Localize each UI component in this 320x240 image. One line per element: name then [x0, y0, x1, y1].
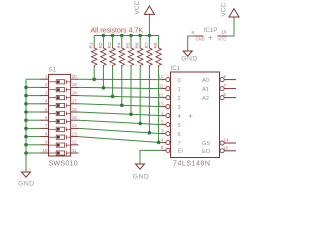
switch element 8 of S1 — [49, 135, 71, 139]
resistor R6 4.7K — [138, 46, 143, 68]
junction on VCC bus at R5 — [129, 34, 133, 38]
wire S1 pin 1 to bus — [26, 78, 41, 80]
junction on VCC bus at R4 — [120, 34, 124, 38]
wire VCC bus to R1 — [93, 36, 95, 47]
svg-text:All resistors 4.7K: All resistors 4.7K — [91, 28, 144, 35]
svg-text:6: 6 — [178, 132, 181, 138]
svg-text:GS: GS — [202, 141, 210, 147]
junction R8 to net 7 — [157, 141, 161, 145]
S1 pin 9 (left) — [41, 140, 49, 145]
wire VCC bus above resistors — [94, 35, 158, 37]
junction at bus row 10 — [24, 151, 28, 155]
svg-text:14: 14 — [224, 138, 230, 143]
wire net from S1 pin 13 to IC1 input 7 — [79, 137, 162, 143]
svg-text:5: 5 — [178, 123, 181, 129]
svg-text:R4: R4 — [116, 42, 121, 48]
svg-text:2: 2 — [178, 96, 181, 102]
wire net from S1 pin 18 to IC1 input 2 — [79, 96, 162, 98]
svg-text:12: 12 — [72, 140, 78, 145]
wire S1 pin 4 to bus — [26, 103, 41, 105]
svg-text:IC1: IC1 — [171, 65, 181, 72]
svg-text:1: 1 — [178, 87, 181, 93]
S1 pin 6 (left) — [41, 115, 49, 120]
S1 pin 7 (left) — [41, 123, 49, 128]
wire net from S1 pin 15 to IC1 input 5 — [79, 120, 162, 124]
wire R2 to net junction — [102, 68, 104, 88]
wire R7 to net junction — [148, 68, 150, 133]
wire S1 pin 10 to bus — [26, 152, 41, 154]
svg-text:12: 12 — [158, 92, 164, 97]
switch element 1 of S1 — [49, 80, 71, 84]
IC1 input pin 11 (name 1) — [159, 83, 181, 92]
wire net from S1 pin 16 to IC1 input 4 — [79, 112, 162, 116]
S1 pin 13 (right) — [71, 131, 79, 136]
junction on VCC bus at R6 — [138, 34, 142, 38]
svg-text:GND: GND — [133, 173, 150, 180]
IC1 input pin 1 (name 4) — [161, 110, 181, 119]
wire IC1P pin16 to VCC — [227, 17, 235, 36]
IC1P pin 8 (GND) — [191, 30, 204, 42]
svg-text:10: 10 — [158, 74, 164, 79]
IC1P pin 16 (VCC) — [218, 30, 227, 42]
S1 pin 20 (right) — [71, 74, 79, 79]
IC1 output pin 6 (A2) — [202, 92, 236, 102]
wire S1 pin 3 to bus — [26, 95, 41, 97]
IC1 output pin 7 (A1) — [202, 83, 236, 93]
S1 pin 16 (right) — [71, 107, 79, 112]
resistor R1 4.7K — [91, 46, 96, 68]
supply symbol VCC (right, above IC1P) — [221, 3, 240, 17]
wire VCC bus to R2 — [102, 36, 104, 47]
junction on VCC bus at R7 — [148, 34, 152, 38]
wire net from S1 pin 14 to IC1 input 6 — [79, 128, 162, 133]
IC1 input pin 2 (name 5) — [161, 119, 181, 128]
IC1 input pin 13 (name 3) — [158, 101, 180, 110]
IC1P origin cross — [209, 36, 213, 40]
junction R2 to net 1 — [102, 86, 106, 90]
encoder IC1 body — [171, 72, 220, 158]
switch element 6 of S1 — [49, 119, 71, 123]
wire net from S1 pin 20 to IC1 input 0 — [79, 78, 162, 80]
wire S1 pin 9 to bus — [26, 144, 41, 146]
IC1 input pin 3 (name 6) — [161, 128, 181, 137]
switch element 10 of S1 — [49, 151, 71, 155]
svg-text:13: 13 — [72, 131, 78, 136]
IC1 origin cross — [189, 114, 193, 118]
svg-text:19: 19 — [72, 82, 78, 87]
wire S1 pin 8 to bus — [26, 136, 41, 138]
svg-text:4: 4 — [178, 114, 181, 120]
wire S1 pin 2 to bus — [26, 86, 41, 88]
S1 pin 17 (right) — [71, 99, 79, 104]
svg-text:GND: GND — [196, 37, 205, 42]
svg-text:SWS010: SWS010 — [49, 161, 78, 168]
svg-text:15: 15 — [72, 115, 78, 120]
svg-text:R2: R2 — [98, 42, 103, 48]
junction on VCC bus at R2 — [102, 34, 106, 38]
IC1 pin 5 (EI) — [161, 145, 183, 154]
ground symbol (below IC1P) — [181, 51, 198, 63]
junction at bus row 4 — [24, 102, 28, 106]
junction R6 to net 5 — [138, 122, 142, 126]
svg-text:11: 11 — [159, 83, 164, 88]
junction at bus row 7 — [24, 127, 28, 131]
switch element 9 of S1 — [49, 143, 71, 147]
junction at bus row 3 — [24, 94, 28, 98]
IC1 input pin 12 (name 2) — [158, 92, 180, 101]
wire VCC bus to R6 — [139, 36, 141, 47]
S1 pin 11 (right) — [71, 148, 79, 153]
svg-text:16: 16 — [221, 30, 227, 35]
S1 pin 18 (right) — [71, 90, 79, 95]
svg-text:GND: GND — [18, 180, 35, 187]
S1 pin 1 (left) — [41, 74, 49, 79]
IC1 output pin 15 (EO) — [202, 145, 236, 155]
svg-text:0: 0 — [178, 78, 181, 84]
S1 pin 10 (left) — [41, 148, 49, 153]
switch element 4 of S1 — [49, 103, 71, 107]
svg-text:EI: EI — [178, 149, 184, 155]
svg-text:R8: R8 — [153, 42, 158, 48]
wire EI to ground — [140, 150, 162, 163]
ground symbol (bottom left) — [18, 172, 35, 187]
S1 pin 2 (left) — [41, 82, 49, 87]
svg-text:15: 15 — [224, 145, 230, 150]
svg-text:14: 14 — [72, 123, 78, 128]
wire VCC bus to R3 — [112, 36, 114, 47]
svg-text:A1: A1 — [202, 87, 209, 93]
svg-text:VCC: VCC — [221, 3, 228, 17]
switch element 3 of S1 — [49, 96, 71, 100]
svg-text:17: 17 — [72, 99, 78, 104]
junction R5 to net 4 — [129, 113, 133, 117]
wire VCC bus to R8 — [158, 36, 160, 47]
svg-text:GND: GND — [181, 56, 198, 63]
resistor R5 4.7K — [128, 46, 133, 68]
svg-text:10: 10 — [42, 148, 48, 153]
wire R6 to net junction — [139, 68, 141, 123]
svg-text:16: 16 — [72, 107, 78, 112]
switch element 2 of S1 — [49, 88, 71, 92]
svg-text:74LS148N: 74LS148N — [173, 160, 210, 167]
junction at bus row 5 — [24, 110, 28, 114]
svg-text:R3: R3 — [107, 42, 112, 48]
S1 pin 3 (left) — [41, 90, 49, 95]
svg-text:20: 20 — [72, 74, 78, 79]
junction R4 to net 3 — [120, 104, 124, 108]
svg-text:18: 18 — [72, 90, 78, 95]
svg-text:3: 3 — [178, 105, 181, 111]
svg-text:EO: EO — [202, 149, 211, 155]
svg-text:VCC: VCC — [218, 37, 227, 42]
S1 pin 4 (left) — [41, 99, 49, 104]
svg-text:R1: R1 — [89, 42, 94, 48]
S1 pin 5 (left) — [41, 107, 49, 112]
resistor R3 4.7K — [110, 46, 115, 68]
wire R1 to net junction — [93, 68, 95, 79]
wire net from S1 pin 19 to IC1 input 1 — [79, 87, 162, 88]
wire R5 to net junction — [130, 68, 132, 114]
svg-text:S1: S1 — [49, 66, 57, 73]
dip switch S1 body — [49, 74, 71, 156]
IC1 input pin 4 (name 7) — [161, 137, 181, 146]
svg-text:VCC: VCC — [134, 0, 141, 14]
IC1 input pin 10 (name 0) — [158, 74, 180, 83]
junction at bus row 8 — [24, 135, 28, 139]
wire S1 pin 5 to bus — [26, 111, 41, 113]
IC1 output pin 14 (GS) — [202, 138, 236, 148]
svg-text:A2: A2 — [202, 96, 209, 102]
wire VCC bus to R5 — [130, 36, 132, 47]
wire R8 to net junction — [158, 68, 160, 142]
wire S1 pin 7 to bus — [26, 127, 41, 129]
wire common left bus of S1 to ground — [25, 79, 27, 172]
S1 pin 12 (right) — [71, 140, 79, 145]
resistor R8 4.7K — [156, 46, 161, 68]
IC1 output pin 9 (A0) — [202, 74, 236, 84]
wire R3 to net junction — [112, 68, 114, 96]
wire net from S1 pin 17 to IC1 input 3 — [79, 104, 162, 107]
ground symbol (below EI) — [133, 164, 150, 180]
junction R1 to net 0 — [92, 78, 96, 82]
resistor R7 4.7K — [147, 46, 152, 68]
wire R4 to net junction — [121, 68, 123, 105]
svg-text:R5: R5 — [126, 42, 131, 48]
svg-text:13: 13 — [158, 101, 164, 106]
resistor R2 4.7K — [101, 46, 106, 68]
wire VCC bus to R4 — [121, 36, 123, 47]
svg-text:R6: R6 — [135, 42, 140, 48]
svg-text:A0: A0 — [202, 78, 209, 84]
wire S1 pin 6 to bus — [26, 119, 41, 121]
S1 pin 15 (right) — [71, 115, 79, 120]
wire VCC bus to R7 — [148, 36, 150, 47]
svg-text:11: 11 — [72, 148, 77, 153]
switch element 5 of S1 — [49, 111, 71, 115]
junction R3 to net 2 — [111, 95, 115, 99]
S1 pin 19 (right) — [71, 82, 79, 87]
junction R7 to net 6 — [148, 131, 152, 135]
svg-text:7: 7 — [178, 141, 181, 147]
junction on VCC bus at R3 — [111, 34, 115, 38]
supply symbol VCC (left, above resistor bank) — [134, 0, 154, 35]
S1 pin 8 (left) — [41, 131, 49, 136]
svg-text:IC1P: IC1P — [204, 27, 218, 34]
svg-text:R7: R7 — [144, 42, 149, 48]
resistor R4 4.7K — [119, 46, 124, 68]
junction at bus row 6 — [24, 118, 28, 122]
wire IC1P pin8 to GND — [188, 36, 194, 51]
switch element 7 of S1 — [49, 127, 71, 131]
junction at bus row 9 — [24, 143, 28, 147]
junction at bus row 2 — [24, 86, 28, 90]
S1 pin 14 (right) — [71, 123, 79, 128]
